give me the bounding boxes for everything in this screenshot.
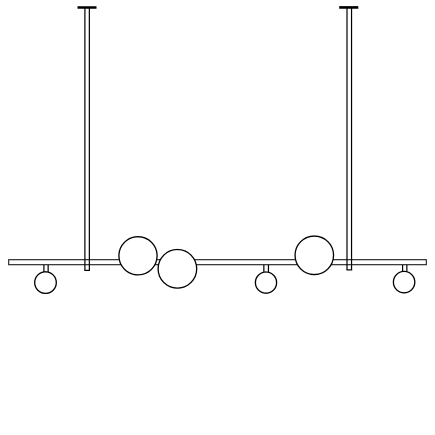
large globe 1 <box>119 237 157 275</box>
left small globe <box>35 272 57 294</box>
stem of middle small globe <box>264 265 269 273</box>
left suspension rod <box>84 8 90 270</box>
middle small globe <box>255 272 276 293</box>
large globe 2 <box>158 249 197 288</box>
right ceiling cap <box>339 6 358 9</box>
stem of right small globe <box>403 265 407 273</box>
right small globe <box>393 271 414 292</box>
left ceiling cap <box>78 6 97 9</box>
right suspension rod <box>346 8 352 270</box>
stem of left small globe <box>44 265 48 272</box>
large globe 3 <box>295 236 334 274</box>
horizontal bar <box>9 260 427 265</box>
